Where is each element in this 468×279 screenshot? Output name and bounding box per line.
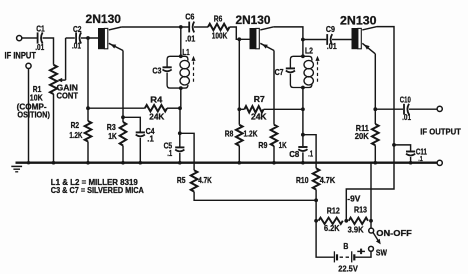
IF input upper terminal xyxy=(17,36,22,41)
svg-text:C9: C9 xyxy=(326,25,335,34)
svg-text:R8: R8 xyxy=(225,130,234,139)
svg-text:22.5V: 22.5V xyxy=(338,264,358,274)
node emitter Q3 / C10 tap xyxy=(373,107,377,111)
node R13 right xyxy=(369,219,373,223)
svg-text:2N130: 2N130 xyxy=(86,13,122,26)
svg-text:6.2K: 6.2K xyxy=(324,224,340,233)
svg-text:4.7K: 4.7K xyxy=(320,176,336,185)
svg-text:20K: 20K xyxy=(355,132,369,141)
capacitor C11 xyxy=(406,147,427,163)
ground symbol xyxy=(11,166,22,171)
note line 1 xyxy=(51,178,139,187)
node C5 / R5 branch xyxy=(178,131,182,135)
svg-text:C1: C1 xyxy=(36,25,45,34)
wire Q2 collector line xyxy=(273,27,303,56)
wire lower terminal to ground rail xyxy=(28,69,30,163)
Q1 emitter lead xyxy=(109,43,123,50)
node -9V tap xyxy=(344,219,348,223)
svg-text:R4: R4 xyxy=(150,95,163,104)
wire C2 to Q1 base xyxy=(81,37,98,39)
svg-text:1K: 1K xyxy=(279,141,287,150)
wire Q1 emitter down xyxy=(122,51,124,118)
svg-text:R5: R5 xyxy=(177,176,186,185)
note line 2 xyxy=(51,186,144,195)
capacitor C1 xyxy=(35,25,45,52)
svg-text:C10: C10 xyxy=(400,96,411,105)
svg-text:CONT: CONT xyxy=(57,91,79,100)
wire R6 to Q2 base xyxy=(230,27,250,39)
resistor R6 xyxy=(208,15,230,41)
svg-text:+: + xyxy=(357,246,366,258)
wire R10 bottom to R12 xyxy=(315,200,317,221)
svg-text:.1: .1 xyxy=(147,134,154,143)
capacitor C6 xyxy=(185,12,195,43)
capacitor C9 xyxy=(326,25,337,51)
capacitor C8 xyxy=(289,135,313,163)
node base Q2 xyxy=(237,37,241,41)
resistor R3 xyxy=(107,117,127,162)
svg-text:B: B xyxy=(343,242,348,251)
svg-text:.01: .01 xyxy=(402,113,411,122)
wire tap down to tank L1 xyxy=(180,27,182,56)
wire to C4 xyxy=(123,117,140,131)
svg-text:C3: C3 xyxy=(152,66,161,75)
wire tank2 bottom down xyxy=(302,88,304,110)
resistor R13 xyxy=(348,206,368,235)
transistor Q2 2N130 xyxy=(236,14,271,49)
resistor R12 xyxy=(319,207,343,234)
wire input to C1 xyxy=(22,37,37,39)
node C11 tap xyxy=(392,143,396,147)
resistor R9 xyxy=(258,125,286,163)
wire tap to C9 xyxy=(303,39,326,41)
node tank1 top tap xyxy=(179,25,183,29)
svg-text:R9: R9 xyxy=(258,141,267,150)
svg-text:3.9K: 3.9K xyxy=(348,225,364,234)
wire C10 line xyxy=(375,108,403,110)
svg-text:.01: .01 xyxy=(327,42,337,51)
node R4 left xyxy=(86,106,90,110)
battery B 22.5V xyxy=(334,242,365,273)
node R7 left xyxy=(237,107,241,111)
svg-text:24K: 24K xyxy=(251,113,267,122)
svg-text:1K: 1K xyxy=(108,132,117,141)
tuned circuit L2 C7 xyxy=(275,47,320,90)
svg-text:.1: .1 xyxy=(167,149,172,158)
svg-text:SW: SW xyxy=(376,248,387,257)
svg-text:2N130: 2N130 xyxy=(236,14,271,27)
svg-text:.01: .01 xyxy=(35,43,44,52)
resistor R5 xyxy=(177,170,316,200)
label IF INPUT xyxy=(5,51,37,61)
Q2 emitter lead xyxy=(260,43,274,50)
svg-text:C3 & C7 = SILVERED MICA: C3 & C7 = SILVERED MICA xyxy=(51,186,144,195)
IF input lower terminal xyxy=(26,63,31,68)
transistor Q3 2N130 xyxy=(340,15,377,50)
ground rail xyxy=(16,161,438,163)
label IF OUTPUT xyxy=(420,127,461,137)
wire base node to R8 xyxy=(238,39,240,109)
capacitor C5 xyxy=(164,133,185,162)
node R4 right xyxy=(178,106,182,110)
svg-text:1.2K: 1.2K xyxy=(244,130,258,139)
svg-text:C2: C2 xyxy=(73,25,82,34)
wire C6 to R6 xyxy=(194,26,208,28)
wire Q1 collector line xyxy=(121,26,189,28)
svg-text:IF INPUT: IF INPUT xyxy=(5,51,37,61)
resistor R8 xyxy=(225,109,258,162)
wire tank1 to C5 node xyxy=(179,108,181,133)
node R10 bottom xyxy=(314,198,318,202)
wire tank1 bottom down xyxy=(180,88,182,108)
svg-text:R12: R12 xyxy=(327,207,340,216)
svg-text:R3: R3 xyxy=(107,123,116,132)
wire down to battery xyxy=(316,221,334,257)
Q2 collector lead xyxy=(260,27,273,30)
resistor R10 xyxy=(296,168,335,200)
node C8 / R10 branch xyxy=(301,133,305,137)
node base Q1 xyxy=(86,36,90,40)
svg-text:R13: R13 xyxy=(354,206,367,215)
svg-text:IF OUTPUT: IF OUTPUT xyxy=(420,127,461,137)
wire switch to battery xyxy=(355,251,371,257)
wire rail to switch xyxy=(370,163,372,228)
svg-text:R7: R7 xyxy=(254,95,265,104)
svg-text:.01: .01 xyxy=(72,41,81,50)
wire tap to C11 xyxy=(394,145,411,151)
tuned circuit L1 C3 xyxy=(152,48,195,90)
Q3 collector lead xyxy=(362,27,377,30)
wire branch to R5 xyxy=(180,133,194,170)
resistor R4 xyxy=(88,95,180,121)
resistor R11 xyxy=(355,109,379,163)
wire branch to R10 xyxy=(303,135,316,169)
wire base node to R2 xyxy=(87,38,89,108)
label -9V xyxy=(347,194,361,203)
svg-text:R2: R2 xyxy=(71,121,80,130)
wire Q2 emitter down xyxy=(273,51,275,125)
wire C1 to R1 top xyxy=(43,38,54,65)
svg-text:C7: C7 xyxy=(275,68,284,77)
node C9 tap xyxy=(301,38,305,42)
wire Q3 collector line xyxy=(346,27,394,221)
IF output lower terminal xyxy=(437,160,442,165)
rail junction dots xyxy=(27,161,413,165)
resistor R7 xyxy=(239,95,303,122)
svg-text:10K: 10K xyxy=(30,94,43,103)
resistor R2 xyxy=(69,108,91,163)
potentiometer R1 xyxy=(17,65,57,163)
svg-text:1.2K: 1.2K xyxy=(69,131,82,140)
svg-text:100K: 100K xyxy=(212,32,228,41)
switch ON-OFF xyxy=(369,228,412,257)
svg-text:4.7K: 4.7K xyxy=(198,176,212,185)
svg-text:R10: R10 xyxy=(296,176,309,185)
capacitor C4 xyxy=(136,127,155,163)
R1 wiper arm xyxy=(57,38,75,82)
svg-text:OSITION): OSITION) xyxy=(17,110,50,119)
svg-text:.01: .01 xyxy=(185,35,195,44)
svg-text:L1: L1 xyxy=(182,48,190,57)
wire Q3 emitter down xyxy=(374,54,376,109)
Q1 collector lead xyxy=(109,27,122,30)
node R12 left xyxy=(314,219,318,223)
transistor Q1 2N130 xyxy=(86,13,122,49)
svg-text:R6: R6 xyxy=(214,15,223,24)
wire C9 to Q3 base xyxy=(332,39,352,41)
wire C10 to output xyxy=(409,108,437,110)
label GAIN CONT xyxy=(57,84,79,101)
wire tank2 to C8 node xyxy=(302,109,304,134)
svg-text:.1: .1 xyxy=(308,149,313,158)
svg-text:-9V: -9V xyxy=(347,194,361,203)
node emitter Q1 / C4 branch xyxy=(121,115,125,119)
capacitor C2 xyxy=(72,25,82,50)
IF output upper terminal xyxy=(437,106,442,111)
svg-text:L2: L2 xyxy=(305,47,313,56)
capacitor C10 xyxy=(400,96,412,123)
svg-text:24K: 24K xyxy=(149,112,164,121)
svg-text:ON-OFF: ON-OFF xyxy=(376,229,412,238)
svg-text:2N130: 2N130 xyxy=(340,15,377,28)
svg-text:C8: C8 xyxy=(289,150,299,159)
Q3 emitter lead xyxy=(362,43,375,54)
svg-text:C6: C6 xyxy=(185,12,195,21)
node R7 right xyxy=(301,107,305,111)
